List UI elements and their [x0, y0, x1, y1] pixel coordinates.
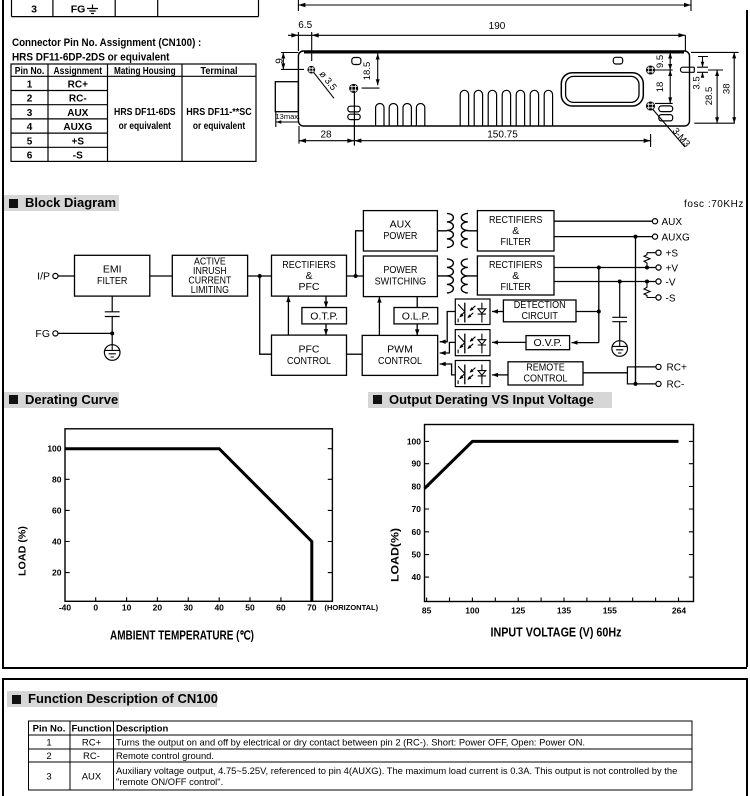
- terminal +V: [656, 265, 661, 270]
- svg-text:CIRCUIT: CIRCUIT: [521, 310, 558, 322]
- transformer T2 primary: [437, 259, 453, 293]
- svg-text:AMBIENT TEMPERATURE (℃): AMBIENT TEMPERATURE (℃): [110, 629, 254, 643]
- MECHANICAL DRAWING: [262, 0, 750, 192]
- svg-text:4: 4: [27, 122, 33, 133]
- svg-text:40: 40: [412, 572, 422, 582]
- centerline from hole 2 down: [353, 93, 355, 146]
- svg-text:85: 85: [422, 606, 432, 616]
- 13max dim: [276, 112, 299, 127]
- node junction to PFC control: [260, 276, 272, 354]
- block DETECTION CIRCUIT: [503, 300, 576, 322]
- svg-text:Remote control ground.: Remote control ground.: [116, 750, 214, 761]
- svg-text:AUXG: AUXG: [662, 232, 691, 243]
- wire O.V.P. to optocoupler U2: [492, 341, 526, 343]
- svg-text:50: 50: [412, 550, 422, 560]
- function description table: [0, 696, 750, 796]
- wire O.T.P. to PFC control: [325, 324, 327, 335]
- connector pin table: [0, 0, 270, 170]
- svg-text:SWITCHING: SWITCHING: [375, 276, 427, 288]
- block RECTIFIERS & PFC: [272, 255, 347, 296]
- wire rectifiers&PFC to power switching, node to AUX power: [347, 231, 364, 276]
- dim 38: [691, 52, 739, 123]
- ground symbol (chassis): [104, 333, 120, 360]
- svg-text:60: 60: [412, 527, 422, 537]
- slot near top left: [352, 58, 361, 65]
- dim 3.5: [697, 57, 708, 77]
- block PFC CONTROL: [272, 335, 347, 375]
- svg-text:Function: Function: [71, 724, 111, 735]
- svg-text:3.5: 3.5: [692, 76, 703, 89]
- svg-text:264: 264: [672, 606, 686, 616]
- wire EMI to inrush: [150, 275, 173, 277]
- text labels: [97, 214, 568, 384]
- block REMOTE CONTROL: [508, 362, 583, 385]
- svg-text:1: 1: [46, 738, 51, 749]
- block O.T.P.: [302, 308, 347, 324]
- mounting hole 4 (bottom right): [647, 102, 655, 110]
- short vent louvers: [376, 103, 384, 126]
- wire FG to capacitor node: [58, 332, 112, 334]
- terminal -S with sense resistor to -V: [656, 295, 661, 300]
- svg-text:-S: -S: [666, 293, 676, 304]
- terminal AUXG: [652, 234, 657, 239]
- page 2 top border: [2, 678, 747, 680]
- transformer T1 primary: [437, 213, 453, 247]
- mounting hole 1: [308, 66, 315, 73]
- optocoupler U2 symbol: [458, 334, 486, 354]
- ground symbol (output): [612, 341, 628, 357]
- svg-text:125: 125: [511, 606, 525, 616]
- svg-text:Description: Description: [116, 724, 168, 735]
- svg-text:(HORIZONTAL): (HORIZONTAL): [325, 603, 379, 612]
- svg-text:60: 60: [52, 505, 62, 515]
- svg-text:CONTROL: CONTROL: [378, 355, 422, 367]
- wire remote control to optocoupler U3: [492, 374, 508, 376]
- node labels: [35, 217, 690, 391]
- wire power switching to O.L.P.: [416, 297, 418, 308]
- terminal RC+: [656, 364, 661, 369]
- block ACTIVE INRUSH CURRENT LIMITING: [172, 255, 247, 296]
- svg-text:20: 20: [52, 568, 62, 578]
- svg-text:AUX: AUX: [67, 108, 88, 119]
- svg-text:20: 20: [153, 603, 163, 613]
- optocoupler U3 symbol: [458, 365, 486, 385]
- svg-text:Pin No.: Pin No.: [15, 66, 45, 77]
- top table fragment (row 3 | FG earth): [0, 0, 270, 20]
- svg-text:3: 3: [46, 772, 51, 783]
- svg-text:100: 100: [47, 444, 61, 454]
- block AUX POWER: [363, 211, 437, 251]
- wire PWM control to power switching: [378, 297, 380, 336]
- optocoupler U2 box: [455, 330, 490, 356]
- dimension labels: [275, 20, 733, 150]
- wire -V output: [554, 281, 656, 283]
- svg-text:50: 50: [245, 603, 255, 613]
- svg-text:100: 100: [407, 436, 421, 446]
- svg-text:EMI: EMI: [103, 264, 122, 276]
- svg-text:-40: -40: [59, 603, 72, 613]
- svg-text:AUX: AUX: [662, 217, 683, 228]
- svg-text:Assignment: Assignment: [54, 66, 103, 77]
- optocoupler U1 box: [455, 299, 490, 325]
- svg-text:LOAD(%): LOAD(%): [390, 528, 402, 582]
- wire +V node down to detection circuit and O.V.P.: [572, 268, 599, 343]
- dim 9.5 / 18 verticals right inside: [655, 52, 673, 103]
- svg-text:155: 155: [603, 606, 617, 616]
- svg-text:+S: +S: [666, 249, 679, 260]
- svg-text:0: 0: [93, 603, 98, 613]
- transformer T2 secondary: [461, 259, 477, 293]
- svg-text:-S: -S: [73, 151, 83, 162]
- svg-text:"remote ON/OFF control".: "remote ON/OFF control".: [116, 776, 223, 787]
- svg-text:28: 28: [320, 130, 332, 141]
- svg-text:+S: +S: [72, 136, 85, 147]
- svg-text:3-M3: 3-M3: [670, 126, 692, 150]
- connector protrusion left: [275, 82, 298, 112]
- svg-text:60: 60: [276, 603, 286, 613]
- block O.V.P.: [526, 336, 570, 350]
- svg-text:Terminal: Terminal: [201, 66, 238, 77]
- capacitor C2 on -V to ground: [612, 282, 627, 341]
- svg-text:40: 40: [214, 603, 224, 613]
- svg-text:RC+: RC+: [667, 363, 687, 374]
- block O.L.P.: [394, 308, 438, 324]
- block EMI FILTER: [75, 255, 150, 296]
- GRAPH 1 : derating curve: [0, 410, 390, 650]
- svg-text:2: 2: [27, 94, 33, 105]
- svg-text:AUXG: AUXG: [63, 122, 92, 133]
- display cutout rounded rect: [561, 73, 643, 106]
- svg-text:9: 9: [275, 58, 286, 64]
- svg-text:HRS DF11-**SC: HRS DF11-**SC: [186, 107, 251, 118]
- svg-text:9.5: 9.5: [655, 55, 666, 68]
- svg-text:CONTROL: CONTROL: [524, 372, 568, 384]
- svg-text:FILTER: FILTER: [501, 236, 532, 248]
- GRAPH 2 : output derating vs input voltage: [380, 410, 750, 650]
- svg-text:FILTER: FILTER: [97, 275, 128, 287]
- slot near top right: [613, 57, 622, 64]
- svg-text:RC-: RC-: [83, 751, 100, 762]
- wire +V output: [554, 267, 656, 269]
- svg-text:1: 1: [27, 80, 33, 91]
- svg-text:or equivalent: or equivalent: [193, 121, 246, 132]
- svg-text:3: 3: [27, 108, 33, 119]
- page 1 left border: [2, 0, 4, 667]
- svg-text:O.L.P.: O.L.P.: [402, 311, 430, 323]
- page 1 bottom border: [2, 667, 747, 669]
- capacitor C1 (EMI to FG): [105, 296, 120, 333]
- wire rectifiers&PFC to O.T.P.: [325, 296, 327, 307]
- svg-text:+V: +V: [666, 263, 679, 274]
- Block Diagram header: [4, 195, 119, 211]
- svg-text:I/P: I/P: [37, 271, 50, 283]
- svg-text:or equivalent: or equivalent: [119, 121, 172, 132]
- terminal RC-: [656, 381, 661, 386]
- svg-text:HRS DF11-6DS: HRS DF11-6DS: [114, 107, 176, 118]
- dim 28.5: [694, 70, 735, 123]
- resistor R1 (RC+ to RC-): [627, 367, 635, 384]
- svg-text:RC-: RC-: [667, 380, 685, 391]
- wire AUX output: [554, 220, 652, 222]
- svg-text:70: 70: [307, 603, 317, 613]
- svg-text:O.V.P.: O.V.P.: [533, 337, 562, 349]
- earth symbol in FG cell: [87, 5, 98, 14]
- wire detection circuit to optocoupler U1: [492, 311, 503, 313]
- svg-text:90: 90: [412, 459, 422, 469]
- wire optocoupler U3 to PWM control: [440, 364, 456, 375]
- svg-text:6: 6: [27, 151, 33, 162]
- svg-text:13max.: 13max.: [276, 112, 301, 121]
- svg-text:PWM: PWM: [387, 344, 413, 356]
- mounting hole 3 (top right): [647, 66, 655, 74]
- fosc label: [684, 199, 744, 210]
- svg-text:28.5: 28.5: [704, 87, 715, 106]
- wire optocoupler U1 to PWM control: [440, 312, 456, 342]
- block RECTIFIERS & FILTER (aux): [477, 211, 554, 251]
- svg-text:18: 18: [655, 82, 666, 93]
- svg-text:10: 10: [122, 603, 132, 613]
- block RECTIFIERS & FILTER (main): [477, 256, 554, 295]
- svg-text:AUX: AUX: [390, 219, 412, 231]
- tall vent louvers: [460, 90, 468, 126]
- wire AUXG down to remote resistor / RC-: [635, 237, 637, 384]
- Output Derating header: [368, 392, 612, 408]
- svg-text:POWER: POWER: [383, 230, 417, 242]
- dim 6.5 extension lines: [298, 32, 311, 61]
- svg-text:O.T.P.: O.T.P.: [310, 311, 338, 323]
- wire I/P to EMI filter: [58, 275, 75, 277]
- svg-text:RC-: RC-: [69, 94, 87, 105]
- connector section title: [0, 30, 270, 64]
- dim 28 / 150.75 bottom: [299, 126, 651, 147]
- wire AUXG output: [554, 236, 652, 238]
- svg-text:30: 30: [184, 603, 194, 613]
- junction dots: [110, 235, 649, 386]
- svg-text:FG: FG: [35, 328, 50, 340]
- svg-text:RC+: RC+: [68, 80, 88, 91]
- terminal FG: [53, 331, 58, 336]
- leader 3-M3: [653, 109, 686, 147]
- tab on right edge: [680, 67, 694, 72]
- svg-text:Mating Housing: Mating Housing: [114, 66, 176, 77]
- wire RC+: [636, 366, 656, 368]
- svg-text:LIMITING: LIMITING: [191, 285, 229, 296]
- svg-text:INPUT VOLTAGE (V) 60Hz: INPUT VOLTAGE (V) 60Hz: [491, 626, 622, 640]
- svg-text:100: 100: [465, 606, 479, 616]
- svg-text:LOAD (%): LOAD (%): [17, 526, 29, 576]
- obround pair right: [659, 106, 673, 112]
- terminal -V: [656, 279, 661, 284]
- svg-text:Turns the output on and off by: Turns the output on and off by electrica…: [116, 737, 585, 748]
- svg-text:FILTER: FILTER: [501, 281, 532, 293]
- terminal +S with sense resistor to +V: [656, 250, 661, 255]
- top overall dimension line (cut off): [298, 0, 691, 11]
- wire O.L.P. to PWM control: [416, 324, 418, 336]
- svg-text:150.75: 150.75: [487, 130, 518, 141]
- optocoupler U3 box: [455, 361, 490, 387]
- svg-text:6.5: 6.5: [298, 20, 312, 31]
- wire PFC control to rectifiers&PFC (feedback): [287, 296, 289, 335]
- dim line y=35.3 (6.5 and 190): [288, 35, 685, 51]
- svg-text:5: 5: [27, 136, 33, 147]
- svg-text:18.5: 18.5: [362, 62, 373, 81]
- Function Description header: [7, 691, 217, 707]
- arrowheads: [276, 3, 736, 143]
- dim 18.5: [362, 54, 380, 89]
- svg-text:40: 40: [52, 537, 62, 547]
- svg-text:70: 70: [412, 504, 422, 514]
- svg-text:RC+: RC+: [82, 738, 102, 749]
- Derating Curve header: [4, 392, 119, 408]
- svg-text:38: 38: [722, 84, 733, 95]
- wire PFC control to PWM control: [347, 353, 363, 355]
- BLOCK DIAGRAM: [0, 195, 750, 395]
- obround pair below hole 2: [348, 106, 360, 112]
- svg-text:80: 80: [52, 474, 62, 484]
- svg-text:CONTROL: CONTROL: [287, 355, 331, 367]
- svg-text:80: 80: [412, 482, 422, 492]
- svg-text:PFC: PFC: [299, 281, 320, 293]
- terminal AUX: [652, 219, 657, 224]
- wire optocoupler U2 to PWM control: [440, 342, 456, 353]
- svg-text:2: 2: [46, 751, 51, 762]
- page 2 left border: [2, 678, 4, 796]
- dim 9: [281, 53, 304, 70]
- svg-text:135: 135: [557, 606, 571, 616]
- page 2 right border: [746, 678, 748, 796]
- block PWM CONTROL: [362, 335, 438, 375]
- svg-text:PFC: PFC: [299, 344, 320, 356]
- wire remote control to resistor R1: [583, 372, 627, 374]
- transformer T1 secondary: [461, 213, 477, 247]
- page 1 right border: [746, 10, 748, 667]
- block POWER SWITCHING: [363, 256, 437, 297]
- svg-text:POWER: POWER: [383, 264, 417, 276]
- wire inrush to rectifiers/PFC: [248, 275, 272, 277]
- terminal I/P: [53, 273, 58, 278]
- svg-text:-V: -V: [666, 277, 676, 288]
- svg-text:Auxiliary voltage output, 4.75: Auxiliary voltage output, 4.75~5.25V, re…: [116, 765, 677, 776]
- mounting hole 2: [350, 84, 358, 92]
- svg-text:Pin No.: Pin No.: [33, 724, 66, 735]
- svg-text:190: 190: [489, 21, 506, 32]
- flow arrowheads: [286, 296, 577, 377]
- leader for hole dia 3.5: [314, 72, 335, 98]
- case outline: [298, 51, 689, 126]
- wire RC-: [636, 383, 656, 385]
- svg-text:AUX: AUX: [82, 772, 102, 783]
